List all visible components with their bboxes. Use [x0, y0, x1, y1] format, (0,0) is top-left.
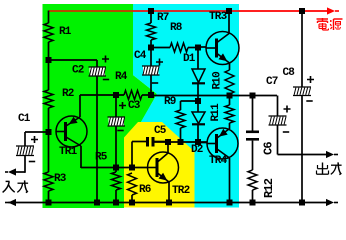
capacitor C3 [115, 95, 117, 117]
resistor R4 (feedback) [124, 91, 142, 100]
ground junction TR2 [166, 200, 172, 206]
transistor TR2 (NPN driver) [148, 152, 179, 183]
svg-text:TR4: TR4 [209, 155, 228, 167]
node R1/R2/C2 junction [46, 57, 52, 63]
TR2 emitter wire to ground [168, 182, 170, 203]
wire node A to C2 [49, 59, 98, 61]
output ground arrow terminal [326, 199, 334, 206]
junction C3 top [113, 92, 119, 98]
transistor TR1 (PNP input) [56, 116, 87, 147]
svg-text:R3: R3 [54, 173, 67, 185]
junction R8/D1/TR3 base [195, 45, 201, 51]
TR1 collector wire down [80, 146, 82, 168]
capacitor C8 (supply filter) [301, 11, 303, 87]
wire input to C1 [16, 171, 25, 173]
power arrow terminal [327, 7, 335, 14]
resistor R11 [229, 96, 231, 106]
resistor R5 [112, 172, 121, 190]
ground junction R5 [113, 200, 119, 206]
junction R7/R8/C4 [148, 45, 154, 51]
resistor R3 [48, 132, 50, 172]
wire TR1 collector to TR2 base [81, 167, 148, 169]
wire output node [151, 95, 277, 97]
node TR1 base junction [46, 129, 52, 135]
junction emitter wire / R5 [113, 165, 119, 171]
svg-text:R6: R6 [139, 184, 151, 196]
wire C1 to base node [25, 131, 49, 133]
svg-text:R2: R2 [62, 88, 74, 100]
capacitor C7 [252, 96, 254, 131]
label 出力 (output) [322, 163, 324, 175]
diode D2 [197, 101, 199, 112]
svg-text:C3: C3 [128, 100, 141, 112]
input ground arrow terminal [5, 202, 8, 204]
resistor R1 [48, 11, 50, 24]
capacitor C6 (output) [277, 96, 279, 117]
junction power rail R7 [148, 8, 154, 14]
svg-text:R11: R11 [210, 103, 222, 122]
TR4 collector wire to ground [229, 158, 231, 203]
junction output node R10/R11 [227, 93, 233, 99]
capacitor C5 [131, 142, 133, 168]
resistor R8 [151, 47, 170, 49]
TR2 collector wire [167, 142, 169, 153]
junction R6/C5 [129, 165, 135, 171]
label 電源 (power) [317, 18, 329, 20]
yellow highlight region (driver stage) [124, 122, 195, 208]
svg-text:R9: R9 [164, 96, 176, 108]
svg-text:R10: R10 [212, 72, 224, 90]
svg-text:R4: R4 [115, 71, 128, 83]
svg-text:C8: C8 [283, 67, 296, 79]
ground rail [8, 202, 327, 204]
svg-text:R5: R5 [95, 151, 108, 163]
wire C2 to ground [96, 76, 98, 203]
wire TR2 collector node to TR4 base [155, 141, 208, 143]
junction D1/D2/R9 [195, 98, 201, 104]
junction R4/C4/output-node [148, 92, 154, 98]
output terminal arrow [326, 151, 334, 158]
capacitor C2 [90, 67, 106, 76]
ground junction C8 [299, 200, 305, 206]
svg-text:D2: D2 [191, 144, 203, 156]
svg-text:C1: C1 [18, 113, 31, 125]
svg-text:C4: C4 [134, 50, 147, 62]
green highlight region (input stage) [43, 4, 158, 208]
resistor R2 [48, 60, 50, 90]
transistor TR4 (PNP lower output) [207, 128, 238, 159]
ground junction TR4 [227, 200, 233, 206]
ground junction R12 [250, 200, 256, 206]
junction power rail TR3 collector [226, 8, 232, 14]
resistor R6 [128, 173, 137, 195]
resistor R9 [181, 100, 199, 102]
svg-text:C6: C6 [262, 142, 276, 155]
resistor R10 [229, 63, 231, 70]
ground junction R3 [46, 200, 52, 206]
svg-text:TR3: TR3 [209, 11, 228, 23]
junction C7 [250, 93, 256, 99]
resistor R12 [248, 170, 257, 190]
svg-text:R7: R7 [157, 12, 169, 24]
transistor TR3 (NPN upper output) [228, 11, 230, 34]
capacitor C4 (bootstrap) [150, 48, 152, 67]
capacitor C1 [17, 146, 33, 156]
TR1 emitter wire up [79, 95, 81, 117]
ground junction C2 [94, 200, 100, 206]
label 入力 (input) [6, 180, 10, 182]
svg-text:R8: R8 [170, 22, 183, 34]
junction R9 bottom [178, 139, 184, 145]
svg-text:D1: D1 [183, 53, 196, 65]
svg-text:R1: R1 [59, 26, 72, 38]
cyan highlight region (output stage) [124, 4, 239, 208]
junction power rail C8 [299, 8, 305, 14]
svg-text:R12: R12 [262, 178, 276, 198]
wire to output terminal [278, 154, 328, 156]
svg-text:C2: C2 [72, 64, 84, 76]
wire TR1 emitter node [80, 94, 124, 96]
input terminal arrow [5, 171, 8, 173]
power rail (red) [49, 10, 133, 12]
svg-text:TR2: TR2 [172, 185, 190, 197]
junction D2 bottom [195, 139, 201, 145]
svg-text:TR1: TR1 [59, 146, 78, 158]
svg-text:C7: C7 [266, 76, 278, 88]
ground junction R6 [129, 200, 135, 206]
diode D1 [197, 48, 199, 70]
svg-text:C5: C5 [154, 125, 167, 137]
resistor R7 [150, 11, 152, 23]
